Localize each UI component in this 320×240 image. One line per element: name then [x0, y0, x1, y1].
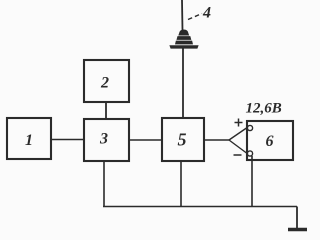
connector plug lower prong — [229, 140, 247, 153]
box 5 — [162, 118, 204, 161]
socket pin circle upper — [247, 125, 252, 130]
wire box6 minus pin down to bus — [251, 156, 253, 206]
wire box1 to box3 — [51, 139, 84, 141]
box 3 — [84, 119, 129, 161]
connector plug upper prong — [229, 128, 247, 140]
plus polarity mark — [235, 119, 243, 127]
wire box3 to box5 — [129, 139, 162, 141]
wire box3 down to bus — [103, 161, 105, 206]
wire antenna lead lower to box 5 — [182, 48, 184, 118]
wire box5 to connector — [204, 139, 229, 141]
wire box2 to box3 — [105, 102, 107, 119]
svg-text:1: 1 — [25, 132, 33, 149]
wire box5 down to bus — [180, 161, 182, 206]
wire bus down to ground — [296, 207, 298, 230]
antenna insulator base (element 4 symbol) — [170, 30, 198, 48]
svg-text:3: 3 — [99, 131, 108, 148]
box 2 — [84, 60, 129, 102]
svg-text:5: 5 — [178, 130, 187, 150]
svg-text:2: 2 — [100, 75, 109, 92]
bus wire bottom — [103, 206, 297, 208]
label 4 leader (dashed) — [188, 14, 202, 20]
socket pin circle lower — [247, 151, 252, 156]
box 6 — [247, 121, 293, 160]
svg-text:4: 4 — [202, 5, 211, 22]
box 1 — [7, 118, 51, 159]
minus polarity mark — [234, 154, 242, 156]
ground — [288, 228, 307, 231]
svg-text:12,6В: 12,6В — [246, 101, 282, 117]
wire antenna lead upper — [181, 0, 184, 31]
svg-text:6: 6 — [266, 133, 274, 150]
